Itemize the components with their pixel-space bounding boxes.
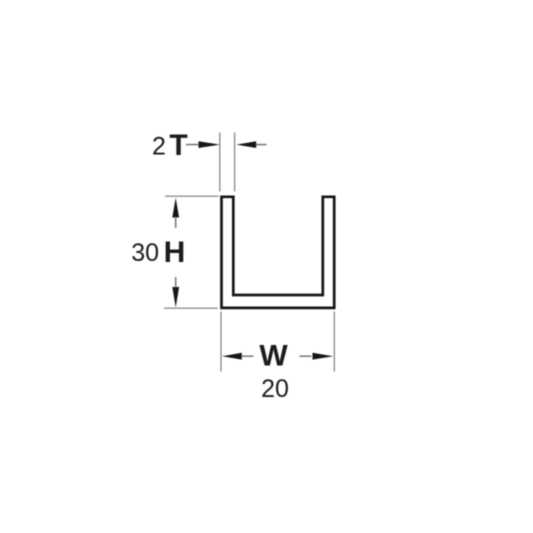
T dimension left arrow shaft bbox=[186, 144, 201, 146]
H dimension down arrow shaft bbox=[175, 277, 177, 288]
svg-text:H: H bbox=[164, 236, 186, 269]
svg-text:W: W bbox=[259, 340, 288, 373]
T dimension left arrowhead bbox=[199, 141, 221, 148]
T dimension extension line right bbox=[234, 133, 236, 192]
H dimension down arrowhead bbox=[172, 287, 179, 308]
svg-text:2: 2 bbox=[152, 132, 166, 160]
svg-text:T: T bbox=[169, 129, 187, 162]
T dimension right arrow shaft bbox=[256, 144, 267, 146]
H dimension extension line top bbox=[165, 195, 219, 197]
H dimension up arrowhead bbox=[172, 198, 179, 218]
W dimension right arrow shaft bbox=[300, 355, 312, 357]
W dimension right arrowhead bbox=[313, 353, 334, 360]
svg-text:30: 30 bbox=[131, 239, 159, 267]
svg-text:20: 20 bbox=[261, 375, 289, 403]
H dimension up arrow shaft bbox=[175, 217, 177, 228]
W dimension extension line right bbox=[333, 312, 335, 372]
H dimension extension line bottom bbox=[164, 307, 218, 309]
W dimension left arrowhead bbox=[222, 353, 242, 360]
T dimension extension line left bbox=[219, 133, 221, 192]
T dimension right arrowhead bbox=[236, 141, 256, 148]
W dimension extension line left bbox=[220, 312, 222, 372]
U-channel profile outline bbox=[222, 197, 335, 308]
W dimension left arrow shaft bbox=[242, 355, 254, 357]
